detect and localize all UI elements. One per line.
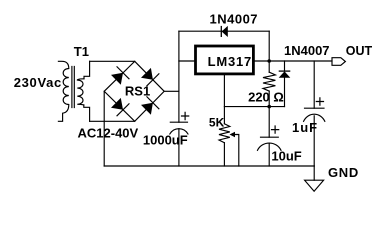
svg-text:GND: GND	[328, 165, 359, 180]
svg-text:1uF: 1uF	[292, 120, 318, 135]
svg-text:230Vac: 230Vac	[14, 75, 62, 90]
svg-text:T1: T1	[74, 44, 89, 59]
svg-text:RS1: RS1	[125, 84, 150, 99]
svg-text:1N4007: 1N4007	[284, 43, 330, 58]
svg-text:10uF: 10uF	[271, 148, 301, 163]
svg-text:AC12-40V: AC12-40V	[78, 126, 139, 141]
svg-text:1000uF: 1000uF	[143, 132, 188, 147]
svg-text:OUT: OUT	[346, 44, 373, 58]
svg-text:5K: 5K	[209, 115, 225, 129]
svg-text:1N4007: 1N4007	[210, 12, 259, 27]
svg-text:220 Ω: 220 Ω	[248, 90, 284, 105]
svg-text:LM317: LM317	[208, 54, 252, 69]
